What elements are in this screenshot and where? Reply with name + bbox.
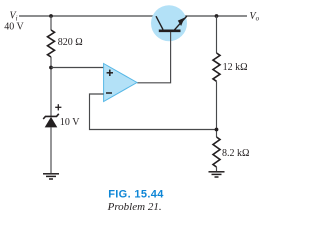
svg-text:FIG. 15.44: FIG. 15.44 (108, 189, 164, 201)
svg-text:820 Ω: 820 Ω (58, 37, 83, 48)
op-amp U1 (104, 64, 137, 102)
wire zener to ground (50, 127, 52, 173)
wire node to op-amp plus input (51, 67, 104, 69)
ground symbol left (43, 174, 59, 179)
wire node down to resistor R1 (50, 16, 52, 30)
wire op-amp minus input feedback (90, 94, 217, 130)
resistor R3 8.2 kohm (213, 137, 220, 167)
node at Vi / 820 ohm junction (49, 14, 53, 18)
svg-text:8.2 kΩ: 8.2 kΩ (222, 148, 249, 159)
plus sign above zener (55, 104, 61, 110)
transistor Q1 (151, 5, 187, 41)
svg-text:12 kΩ: 12 kΩ (223, 62, 248, 73)
svg-text:Vo: Vo (250, 11, 260, 23)
resistor R1 820 ohm (48, 30, 55, 57)
wire R2 to R3 (216, 81, 218, 137)
node at feedback junction (215, 128, 219, 132)
zener diode D1 (43, 114, 59, 128)
wire base lead down to op-amp output (137, 32, 170, 83)
svg-text:40 V: 40 V (4, 21, 24, 32)
wire top rail left (Vi to transistor collector) (19, 15, 157, 17)
wire R3 to ground (216, 167, 218, 171)
node at zener / op-amp plus input (49, 66, 53, 70)
resistor R2 12 kohm (213, 53, 220, 81)
svg-text:10 V: 10 V (60, 117, 80, 128)
node at top right Vo (215, 14, 219, 18)
svg-text:Problem 21.: Problem 21. (107, 201, 162, 213)
wire R1 to zener node (50, 57, 52, 116)
wire node to resistor R2 (216, 16, 218, 53)
wire top rail right (transistor emitter to Vo) (184, 15, 247, 17)
ground symbol right (209, 172, 225, 177)
